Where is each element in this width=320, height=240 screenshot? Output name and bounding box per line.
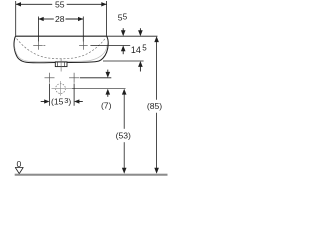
extension line left of 55: [15, 1, 17, 36]
dimension 28 arrows: [38, 17, 83, 21]
dimension 28 line: [38, 18, 83, 20]
drain fitting inner lines: [57, 62, 59, 66]
svg-text:28: 28: [55, 14, 65, 24]
svg-text:5: 5: [123, 12, 128, 21]
supply cross left (connection view): [45, 73, 55, 83]
dimension (7) upper arrow: [106, 70, 111, 78]
dimension (53) down arrow: [122, 168, 127, 174]
extension line left of 28: [37, 17, 39, 42]
svg-text:5: 5: [142, 44, 147, 53]
dimension 55 line: [16, 3, 107, 5]
dimension 14.5 lower arrow: [138, 61, 143, 72]
mounting hole cross left (front view): [33, 41, 45, 50]
extension line from right cross to (7): [80, 77, 112, 79]
dimension (15.3) left arrow: [41, 99, 50, 103]
dimension 14.5 upper arrow: [138, 28, 143, 36]
svg-text:(85): (85): [147, 101, 162, 111]
drain center line: [60, 59, 62, 72]
drain outlet horizontal line to (53): [52, 88, 73, 90]
dimension (15.3) right arrow: [74, 99, 83, 103]
svg-text:(7): (7): [101, 100, 112, 110]
dimension (7) lower arrow: [106, 89, 111, 97]
dimension 55 arrows: [16, 2, 107, 6]
extension line at mounting hole level: [90, 44, 130, 46]
svg-text:55: 55: [55, 0, 65, 9]
extension line right of 55: [106, 1, 108, 36]
svg-text:(53): (53): [116, 131, 131, 141]
basin inner faint contour: [15, 43, 108, 62]
dimension (85) line lower part: [156, 113, 158, 171]
svg-text:(15: (15: [51, 97, 64, 107]
rim extension line to right: [107, 35, 158, 37]
datum triangle: [15, 168, 23, 174]
supply cross right (connection view): [69, 73, 79, 83]
dimension (53) line lower part: [123, 142, 125, 171]
dimension (85) up arrow: [154, 36, 159, 42]
svg-text:): ): [68, 97, 71, 107]
basin outline front view: [14, 36, 108, 63]
extension line at basin bottom level: [103, 60, 144, 62]
dimension (15.3) extension lines: [49, 84, 51, 106]
mounting hole cross right (front view): [79, 41, 88, 50]
dimension (53) line upper part: [123, 93, 125, 129]
drain outlet crosshair vertical: [60, 81, 62, 96]
dimension (53) up arrow: [122, 89, 127, 95]
extension line right of 28: [82, 17, 84, 42]
svg-text:14: 14: [131, 45, 141, 55]
basin bowl dashed line: [17, 38, 106, 59]
drain outlet circle (dashed): [56, 84, 66, 94]
drain fitting rectangle: [55, 62, 67, 67]
floor line: [15, 174, 168, 176]
dimension 5.5 upper arrow: [121, 28, 126, 36]
dimension 5.5 lower arrow: [121, 45, 126, 54]
dimension (85) down arrow: [154, 168, 159, 174]
dimension (85) line upper part: [156, 40, 158, 100]
